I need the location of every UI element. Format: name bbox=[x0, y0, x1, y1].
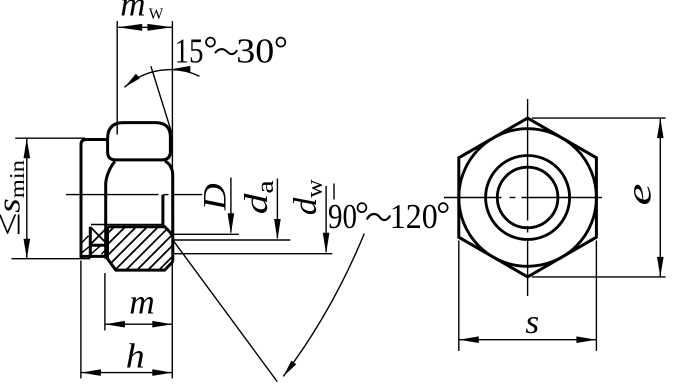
svg-text:≤smin: ≤smin bbox=[0, 159, 29, 236]
svg-text:da: da bbox=[239, 180, 279, 214]
svg-text:m: m bbox=[129, 282, 155, 321]
svg-text:120: 120 bbox=[390, 197, 438, 236]
svg-text:90: 90 bbox=[328, 197, 357, 236]
svg-text:s: s bbox=[525, 304, 539, 341]
svg-text:e: e bbox=[619, 184, 658, 206]
svg-text:15: 15 bbox=[175, 31, 204, 70]
svg-text:°: ° bbox=[204, 29, 218, 68]
svg-text:°: ° bbox=[436, 195, 450, 234]
svg-text:h: h bbox=[126, 337, 145, 376]
svg-text:°: ° bbox=[274, 29, 288, 68]
svg-text:D: D bbox=[197, 183, 233, 211]
svg-text:m: m bbox=[120, 0, 145, 24]
svg-text:30: 30 bbox=[236, 31, 274, 70]
svg-text:W: W bbox=[149, 6, 164, 23]
svg-text:°: ° bbox=[355, 195, 369, 234]
svg-text:dw: dw bbox=[288, 179, 328, 216]
